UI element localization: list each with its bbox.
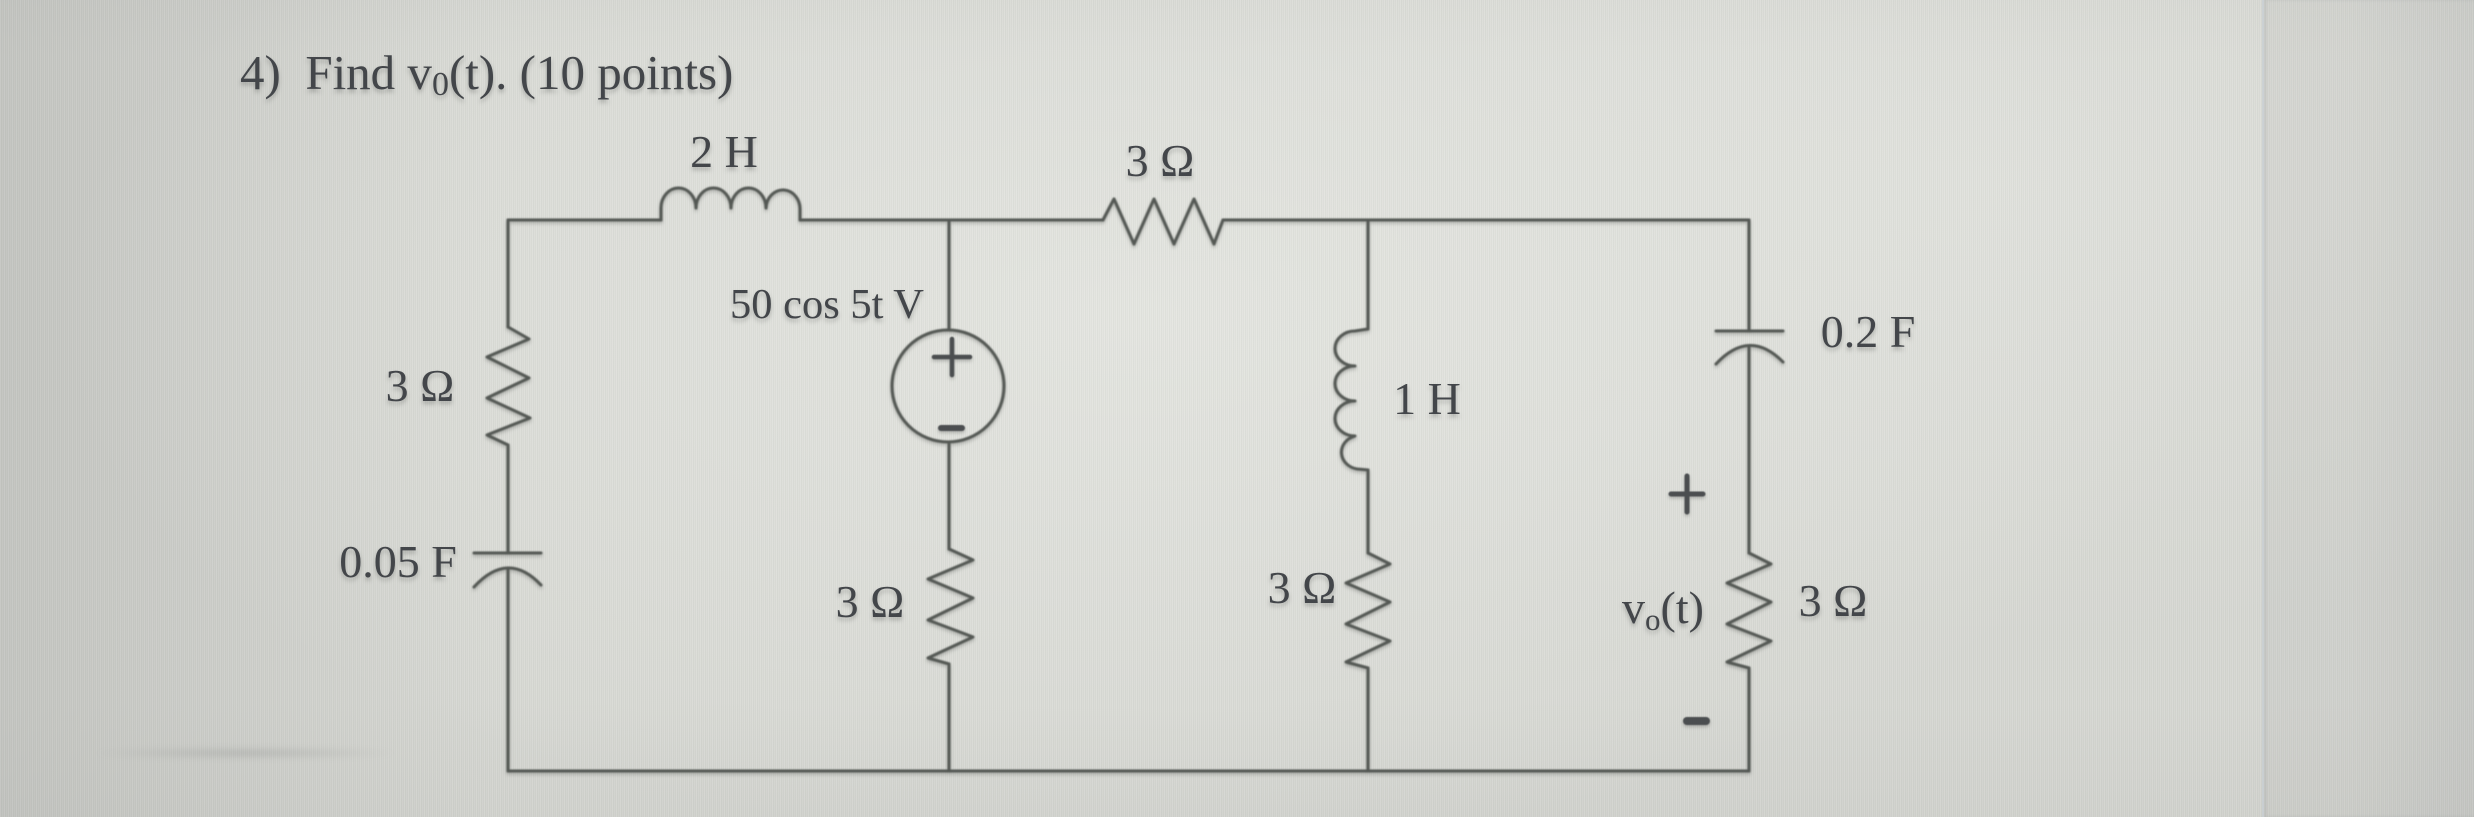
svg-text:0.05 F: 0.05 F — [339, 536, 457, 587]
svg-text:3 Ω: 3 Ω — [1268, 562, 1337, 613]
svg-text:2 H: 2 H — [690, 126, 758, 177]
svg-text:3 Ω: 3 Ω — [1799, 575, 1868, 626]
svg-text:vo(t): vo(t) — [1622, 582, 1704, 637]
svg-text:3 Ω: 3 Ω — [836, 576, 905, 627]
svg-text:4) Find v0(t). (10 points): 4) Find v0(t). (10 points) — [240, 45, 733, 103]
svg-text:50 cos 5t V: 50 cos 5t V — [730, 281, 924, 328]
svg-text:3 Ω: 3 Ω — [1126, 135, 1195, 186]
svg-text:3 Ω: 3 Ω — [386, 360, 455, 411]
svg-text:1 H: 1 H — [1393, 373, 1461, 424]
svg-text:0.2 F: 0.2 F — [1821, 306, 1916, 357]
